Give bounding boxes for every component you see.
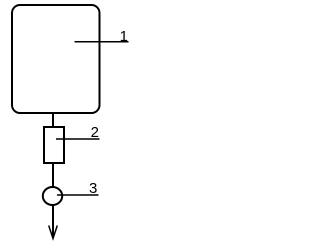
leader line to label 2 [56, 138, 100, 140]
vessel 1 (rounded rectangle) [12, 5, 100, 113]
component 2 (rectangle) [44, 127, 64, 163]
leader line to label 1 [75, 41, 129, 43]
leader line to label 3 [57, 194, 99, 196]
component 3 (circle) [43, 187, 62, 205]
svg-text:3: 3 [89, 180, 97, 197]
wire from component 2 to component 3 [52, 163, 54, 188]
wire from vessel 1 to component 2 [52, 113, 54, 128]
svg-text:2: 2 [91, 124, 99, 141]
svg-text:1: 1 [120, 28, 128, 45]
wire from component 3 to arrow [52, 205, 54, 238]
arrow head (open barbs) [49, 226, 58, 239]
